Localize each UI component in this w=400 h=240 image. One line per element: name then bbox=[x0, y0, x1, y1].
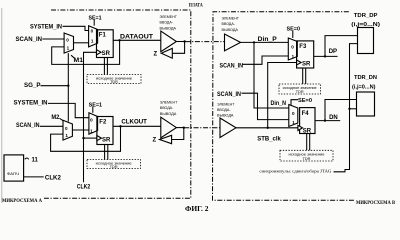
svg-text:TDR: TDR bbox=[303, 157, 311, 161]
svg-text:SR: SR bbox=[303, 128, 312, 134]
svg-text:ФАПЧ: ФАПЧ bbox=[7, 172, 20, 176]
svg-text:F2: F2 bbox=[99, 119, 107, 125]
svg-text:11: 11 bbox=[32, 158, 39, 164]
svg-text:МИКРОСХЕМА В: МИКРОСХЕМА В bbox=[356, 201, 396, 206]
svg-text:(i,j=0...N): (i,j=0...N) bbox=[352, 84, 376, 90]
svg-text:ВВОДА-: ВВОДА- bbox=[160, 106, 174, 110]
svg-text:M1: M1 bbox=[74, 58, 84, 64]
svg-text:DATAOUT: DATAOUT bbox=[120, 35, 153, 41]
svg-text:ВВОДА-: ВВОДА- bbox=[222, 22, 236, 26]
svg-text:SYSTEM_IN: SYSTEM_IN bbox=[30, 25, 62, 31]
svg-text:синхроимпульс сдвига/обора JTA: синхроимпульс сдвига/обора JTAG bbox=[259, 168, 332, 173]
svg-text:SR: SR bbox=[102, 138, 111, 144]
svg-text:1: 1 bbox=[65, 133, 68, 138]
svg-text:ВВОДА-: ВВОДА- bbox=[160, 21, 174, 25]
svg-text:M2: M2 bbox=[51, 115, 60, 121]
svg-text:TDR_DN: TDR_DN bbox=[354, 75, 377, 81]
svg-text:Z: Z bbox=[153, 138, 157, 144]
svg-text:0: 0 bbox=[90, 118, 93, 123]
svg-text:TDR: TDR bbox=[110, 165, 118, 169]
svg-text:1: 1 bbox=[292, 120, 295, 125]
svg-text:SE=0: SE=0 bbox=[298, 98, 312, 104]
svg-text:ВЫВОДА: ВЫВОДА bbox=[160, 26, 177, 30]
svg-text:F4: F4 bbox=[302, 111, 310, 117]
svg-text:TDR: TDR bbox=[110, 80, 118, 84]
svg-text:DP: DP bbox=[329, 49, 337, 55]
svg-text:1: 1 bbox=[90, 128, 93, 133]
svg-text:0: 0 bbox=[66, 38, 69, 43]
svg-text:F1: F1 bbox=[99, 33, 107, 39]
svg-text:CLK2: CLK2 bbox=[45, 176, 62, 182]
svg-text:ЭЛЕМЕНТ: ЭЛЕМЕНТ bbox=[222, 17, 240, 21]
svg-text:TDR_DP: TDR_DP bbox=[354, 13, 378, 19]
svg-text:ЭЛЕМЕНТ: ЭЛЕМЕНТ bbox=[160, 15, 178, 19]
svg-text:ЭЛЕМЕНТ: ЭЛЕМЕНТ bbox=[217, 102, 235, 106]
svg-text:1: 1 bbox=[292, 54, 295, 59]
svg-text:SYSTEM_IN: SYSTEM_IN bbox=[14, 100, 48, 106]
svg-text:CLKOUT: CLKOUT bbox=[121, 119, 147, 125]
svg-text:SG_P: SG_P bbox=[24, 83, 41, 89]
svg-text:0: 0 bbox=[292, 111, 295, 116]
svg-text:0: 0 bbox=[291, 44, 294, 49]
svg-text:ЭЛЕМЕНТ: ЭЛЕМЕНТ bbox=[160, 101, 178, 105]
svg-text:ВВОДА-: ВВОДА- bbox=[217, 108, 231, 112]
svg-text:Din_N: Din_N bbox=[271, 101, 287, 107]
svg-text:МИКРОСХЕМА А: МИКРОСХЕМА А bbox=[2, 199, 43, 204]
svg-text:ВЫВОДА: ВЫВОДА bbox=[222, 28, 239, 32]
svg-text:TDR: TDR bbox=[296, 90, 304, 94]
svg-text:SCAN_IN: SCAN_IN bbox=[217, 92, 241, 98]
svg-text:ФИГ. 2: ФИГ. 2 bbox=[185, 205, 209, 213]
svg-text:SR: SR bbox=[302, 61, 311, 67]
svg-text:ВЫВОДА: ВЫВОДА bbox=[160, 112, 177, 116]
svg-text:1: 1 bbox=[67, 46, 70, 51]
svg-text:0: 0 bbox=[91, 28, 94, 33]
svg-text:STB_clk: STB_clk bbox=[257, 137, 281, 143]
svg-text:Z: Z bbox=[154, 52, 158, 58]
svg-text:SE=1: SE=1 bbox=[89, 102, 103, 108]
svg-text:DN: DN bbox=[329, 115, 338, 121]
svg-text:SCAN_IN: SCAN_IN bbox=[220, 63, 244, 69]
svg-text:SR: SR bbox=[102, 51, 111, 57]
svg-text:0: 0 bbox=[65, 126, 68, 131]
svg-text:Din_P: Din_P bbox=[258, 37, 277, 43]
svg-text:SE=1: SE=1 bbox=[89, 16, 102, 22]
svg-text:SCAN_IN: SCAN_IN bbox=[16, 37, 43, 43]
svg-text:CLK2: CLK2 bbox=[77, 184, 91, 190]
svg-text:ПЛАТА: ПЛАТА bbox=[189, 3, 203, 9]
svg-text:F3: F3 bbox=[299, 44, 307, 50]
svg-text:SCAN_IN: SCAN_IN bbox=[16, 123, 40, 129]
svg-text:1: 1 bbox=[91, 38, 94, 43]
